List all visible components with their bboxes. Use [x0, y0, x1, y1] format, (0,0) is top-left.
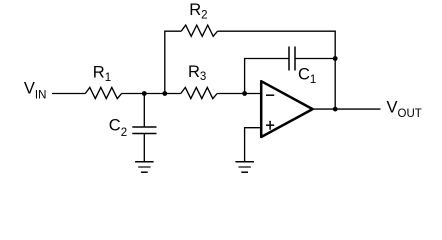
capacitor C1 [289, 47, 295, 71]
op-amp non-inverting marker [266, 121, 274, 130]
wire node C to C1 [245, 59, 289, 94]
wire R1 to R3 [122, 93, 181, 95]
junction node B [162, 91, 167, 96]
junction node A [142, 91, 147, 96]
junction node D [333, 56, 338, 61]
wire node B to R2 [165, 31, 181, 93]
resistor R2 [181, 25, 217, 36]
wire C1 to output riser [295, 58, 335, 60]
wire R3 to op-amp [217, 93, 261, 95]
wire C2 to ground [143, 134, 145, 162]
ground for op-amp [235, 162, 254, 172]
ground for C2 [135, 162, 154, 172]
capacitor C2 [132, 127, 156, 134]
resistor R1 [85, 87, 121, 98]
resistor R3 [181, 87, 217, 98]
wire non-inverting input to ground [245, 128, 260, 162]
op-amp U1 [261, 81, 312, 137]
junction node C [242, 91, 247, 96]
junction node E [333, 107, 338, 112]
wire VIN to R1 [52, 93, 85, 95]
wire output [313, 108, 381, 110]
op-amp inverting marker [266, 94, 274, 96]
wire node A to C2 [143, 94, 145, 128]
wire R2 to output riser [218, 31, 336, 109]
